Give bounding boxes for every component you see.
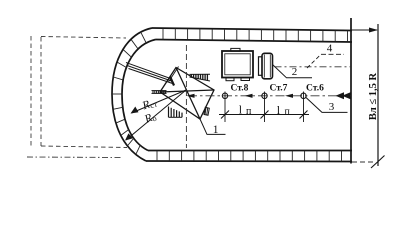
slash tick on dimension line bottom (371, 156, 385, 169)
laser instrument trolley (item 2) body (222, 51, 253, 78)
lining segment joints (ticks) on top wall (163, 28, 348, 42)
slash tick at Ст.6 (300, 111, 308, 119)
strut end cap (170, 77, 174, 86)
svg-text:1: 1 (213, 124, 219, 136)
sighting axis of instrument (dash-dot) (275, 66, 352, 68)
small hatched bar left of platform (152, 91, 167, 94)
leader and label 4 (307, 54, 321, 68)
top wall inner line (156, 40, 353, 43)
telescopic strut from wall to platform (126, 63, 174, 86)
bottom wall line extended (dash) (352, 161, 376, 163)
leader and label 1 (200, 119, 226, 134)
station point Ст.7 (262, 93, 267, 98)
dimension arrow at top from face (351, 29, 377, 31)
leader and label 2 (273, 65, 313, 78)
leader and label 3 (306, 98, 348, 113)
svg-text:2: 2 (292, 66, 298, 78)
radius arrow R_o from platform centre to outer wall (125, 90, 186, 141)
left end inner arc (122, 40, 156, 151)
trolley top protrusion (231, 48, 240, 51)
hatched platform block top right (190, 74, 211, 81)
svg-text:4: 4 (327, 42, 333, 54)
radius arrow R_st from platform centre to inner wall (131, 90, 187, 114)
trolley foot left (226, 78, 234, 81)
trolley foot right (241, 78, 250, 81)
hatched block below platform left (169, 107, 183, 118)
svg-text:Ст.8: Ст.8 (231, 84, 249, 94)
double chevron arrow near face (336, 92, 351, 99)
svg-text:Вл ≤ 1,5 R: Вл ≤ 1,5 R (368, 72, 379, 120)
station extension lines (225, 92, 304, 123)
lining segment joints (ticks) on bottom wall (157, 151, 342, 162)
lining segment joints (ticks) on arc (112, 32, 146, 154)
slash tick at Ст.8 (221, 111, 229, 119)
polygonometry dimension line (219, 114, 309, 116)
platform diagonal L-R (160, 90, 214, 92)
svg-text:Ст.6: Ст.6 (306, 84, 324, 94)
tunnel lining walls (112, 18, 352, 164)
svg-text:п: п (246, 106, 252, 117)
arrowhead pointing to platform centre (187, 94, 195, 98)
future tunnel outer end face (vertical dashed) (30, 36, 32, 146)
platform diagonal T-B (176, 68, 200, 120)
instrument unit connector (259, 57, 263, 76)
station point Ст.6 (301, 93, 306, 98)
future tunnel inner end face (vertical dashed) (40, 37, 42, 146)
instrument unit body (262, 53, 273, 79)
left end outer arc (112, 28, 152, 161)
svg-text:п: п (285, 107, 291, 118)
future tunnel bottom outer contour (horizontal dashed) (27, 156, 123, 159)
small hatched block bottom right of platform (204, 107, 209, 115)
slash tick at Ст.7 (261, 111, 269, 119)
bottom wall inner line (148, 150, 352, 152)
tunnel face line (350, 18, 352, 164)
future tunnel bottom inner contour (horizontal dashed) (41, 146, 127, 148)
station point Ст.8 (222, 93, 227, 98)
future tunnel top contour (horizontal dashed) (41, 37, 126, 39)
arrowhead mid span 1 (245, 94, 253, 98)
dimension: extension line at right (377, 24, 379, 166)
svg-text:3: 3 (329, 101, 335, 113)
tunnel centreline (dash-dot) with sighting arrows (188, 95, 351, 97)
shield erector platform (item 1), rotated quadrilateral (160, 67, 214, 120)
vertical axis through platform centre (dash-dot) (185, 45, 187, 148)
svg-text:Ст.7: Ст.7 (270, 84, 288, 94)
bottom wall outer line (146, 160, 352, 163)
top wall outer line (152, 28, 352, 31)
dashed outline of future tunnel, left end (27, 36, 127, 158)
arrowhead mid span 2 (285, 94, 293, 98)
